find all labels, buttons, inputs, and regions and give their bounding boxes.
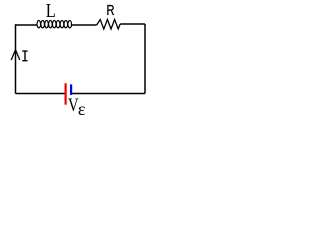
wire bottom-left segment [16,93,65,95]
wire right vertical [144,24,146,94]
wire left vertical [15,24,17,93]
wire top-right segment [120,23,145,25]
inductor L1 [37,21,71,28]
svg-text:R: R [107,3,115,19]
wire bottom-right segment [72,93,145,95]
current arrow I [11,50,20,60]
battery plate short (blue) [70,84,72,95]
battery plate long (red) [64,83,66,104]
wire top-left segment [16,24,38,26]
wire between inductor and resistor [72,24,97,26]
resistor R [97,20,121,30]
svg-text:L: L [46,1,56,22]
svg-text:ε: ε [78,99,86,119]
label I [22,51,27,61]
